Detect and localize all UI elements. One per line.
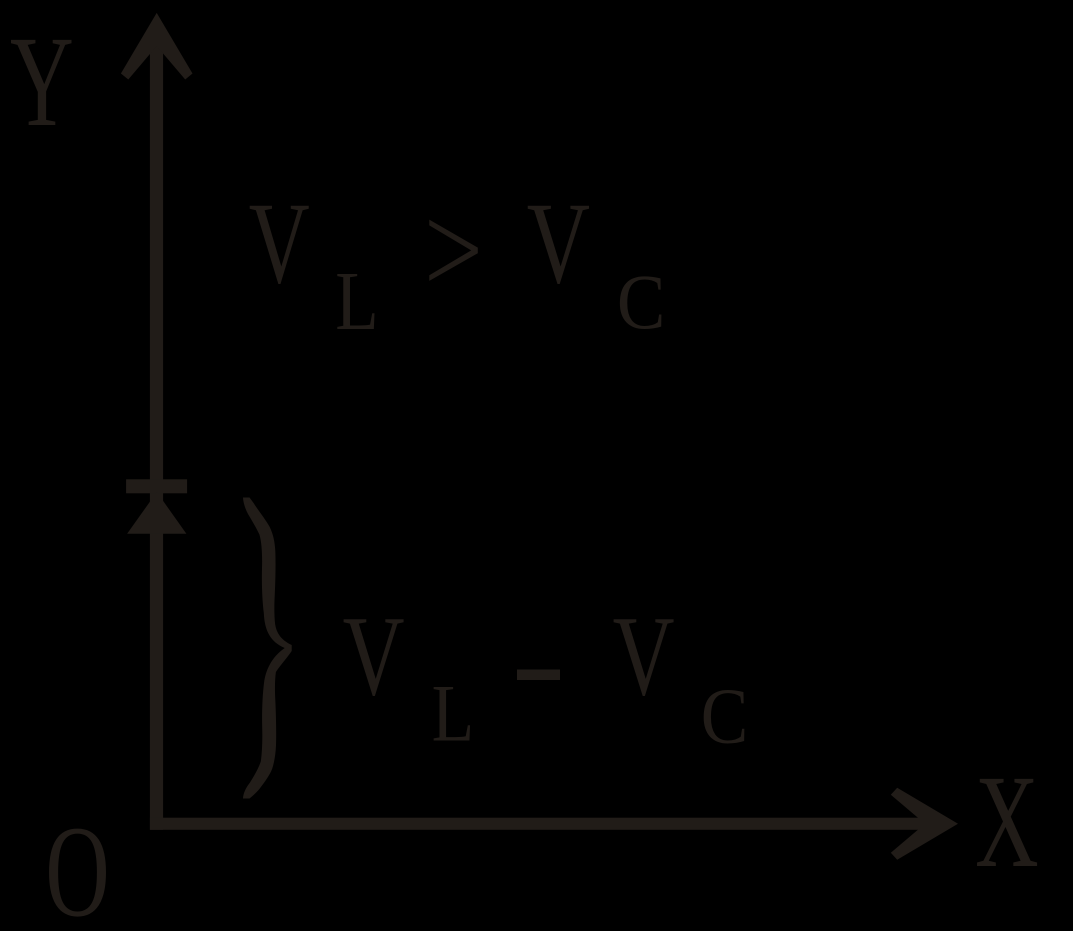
svg-text:V: V [343, 593, 405, 720]
svg-text:L: L [335, 255, 379, 348]
svg-text:Y: Y [10, 10, 74, 154]
svg-text:V: V [249, 179, 310, 309]
svg-text:C: C [617, 260, 666, 346]
svg-text:V: V [613, 593, 675, 720]
svg-text:C: C [701, 673, 749, 761]
svg-text:O: O [45, 799, 109, 931]
svg-text:V: V [527, 179, 590, 308]
svg-text:X: X [975, 749, 1039, 895]
svg-text:L: L [432, 668, 475, 758]
